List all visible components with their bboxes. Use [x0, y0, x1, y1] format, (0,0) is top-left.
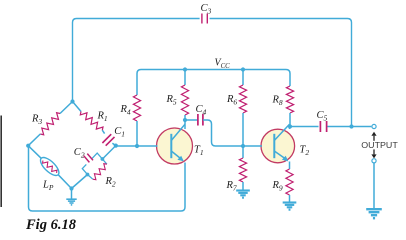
svg-text:Fig 6.18: Fig 6.18 — [25, 217, 77, 232]
svg-text:OUTPUT: OUTPUT — [361, 141, 398, 150]
